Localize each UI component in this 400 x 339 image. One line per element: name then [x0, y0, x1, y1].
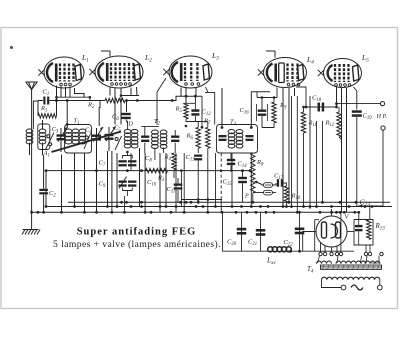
wire R8 bottom — [262, 184, 264, 187]
coil T4 secondary — [322, 277, 380, 280]
wire T2 cap lead — [144, 143, 146, 153]
wire antenna down — [31, 90, 33, 213]
capacitor C2 — [39, 189, 48, 191]
coil T2 s1 — [152, 130, 159, 134]
wire R1 ends — [37, 112, 39, 116]
wire y199 segment — [181, 199, 222, 201]
wire v184 — [183, 153, 185, 212]
gang line — [52, 132, 122, 153]
capacitor T3 right — [246, 135, 254, 137]
wire v180 — [180, 171, 182, 207]
terminal HP+ — [380, 102, 384, 106]
terminal p5 — [339, 252, 342, 255]
wire v107 — [107, 151, 109, 207]
terminal p3 — [330, 252, 333, 255]
wire A1 sec leads — [42, 120, 44, 129]
variable capacitor C4 — [92, 135, 101, 137]
wire box T3 left — [205, 93, 215, 125]
wire y97 link — [57, 96, 90, 98]
wire cap leads — [261, 98, 263, 110]
wire v124 cap cluster — [124, 196, 126, 212]
terminal sec right — [377, 285, 382, 290]
capacitor T3 left — [219, 135, 227, 137]
wire v322 — [322, 121, 324, 202]
wire V anode top — [331, 209, 333, 216]
wire HP top — [337, 103, 382, 105]
wire v215 — [215, 153, 217, 207]
wire box V3 — [201, 96, 203, 127]
terminal p6 — [364, 252, 367, 255]
wire v176 — [175, 153, 177, 212]
wire v61 — [61, 155, 63, 213]
capacitor C7b — [128, 160, 136, 162]
variable capacitor C3 — [57, 134, 66, 136]
resistor R13 — [367, 220, 371, 239]
coil T3 s — [236, 130, 243, 134]
terminal p8 — [380, 252, 383, 255]
wire grid drop to T1 — [66, 101, 68, 128]
wire V5 pins down — [336, 87, 338, 107]
tube V5 — [324, 59, 362, 88]
rail y206 — [46, 206, 392, 208]
wire C22 lead — [299, 212, 301, 251]
wire C20 lead — [241, 212, 243, 251]
wire R10 bottom — [286, 203, 288, 207]
wire v251 — [250, 153, 252, 207]
coil T4 primary c — [365, 261, 380, 264]
AC symbol — [351, 285, 363, 290]
capacitor T2 tuning left — [141, 136, 149, 138]
svg-text:P: P — [244, 194, 249, 200]
coil A1 box — [38, 124, 50, 150]
transformer T1 box — [65, 125, 92, 154]
filament arc — [331, 224, 338, 238]
wire p6 stub — [365, 245, 367, 252]
terminal p4 — [335, 252, 338, 255]
wire R2 corner down — [98, 101, 101, 127]
wire V1 pins down — [56, 86, 58, 101]
wire V1 plate — [75, 88, 85, 97]
wire box C20 — [223, 214, 355, 251]
wire v84 — [84, 153, 86, 212]
coil T1 primary — [65, 129, 72, 133]
svg-text:H P.: H P. — [376, 113, 388, 120]
wire v297 — [296, 96, 298, 212]
resistor R5 — [184, 103, 188, 119]
wire R9 leads — [273, 98, 275, 103]
capacitor C13 — [194, 155, 202, 157]
wire R2 right node — [125, 101, 127, 113]
terminal sec left — [341, 285, 346, 290]
terminal HP- — [381, 126, 385, 130]
wire c18 line — [306, 106, 337, 108]
terminal p7 — [368, 252, 371, 255]
wire sec right — [379, 280, 381, 285]
coil T4 primary a — [317, 261, 332, 264]
switch on A1 — [47, 135, 50, 138]
wire mid rail y170.6 — [46, 170, 250, 172]
tube V3 — [169, 56, 212, 88]
resistor R7 body — [206, 127, 210, 148]
svg-text:D: D — [128, 122, 134, 128]
wire V4 pins down — [282, 88, 284, 207]
rail y202 — [68, 201, 390, 203]
wire R11 leads — [303, 107, 305, 112]
coil T3 p — [228, 130, 235, 134]
resistor R11 — [301, 112, 305, 133]
wire plate jumper — [121, 95, 139, 97]
wire sec left — [322, 280, 342, 288]
wire C6 down — [126, 120, 128, 124]
wire v316 — [316, 121, 318, 207]
wire v141 — [139, 148, 141, 207]
wire V filament leads — [320, 243, 322, 253]
capacitor C17 — [277, 179, 279, 187]
capacitor C22 — [295, 228, 305, 231]
wire prim leads — [318, 256, 320, 263]
coil T1 mid — [72, 129, 79, 133]
wire V left — [303, 232, 316, 252]
switch on T1 — [85, 136, 88, 139]
wire V3 plate down — [206, 87, 209, 93]
terminal p2 — [323, 252, 326, 255]
wire T2 right cap leads — [174, 130, 176, 136]
bias cell 2 — [264, 190, 273, 195]
wire A1 primary leads — [33, 101, 38, 129]
wire C21 lead — [260, 212, 262, 251]
bias cell 1 — [264, 183, 273, 188]
capacitor C14 — [227, 159, 235, 161]
resistor R8 — [251, 153, 255, 193]
anode plate 1 — [322, 222, 327, 238]
wire t3 plate drop — [221, 88, 223, 128]
grid cap stub V2 — [109, 51, 111, 57]
coil T2 s2 — [160, 130, 167, 134]
capacitor C6 — [121, 113, 131, 115]
wire C11 leads — [177, 178, 179, 184]
wire v160 — [159, 153, 161, 212]
capacitor T2 tuning right — [171, 136, 179, 138]
wire R6R7 joins — [197, 148, 199, 153]
capacitor C1 — [43, 97, 45, 105]
grid cap stub V4 — [274, 51, 276, 58]
capacitor C19 — [352, 110, 362, 113]
wire V2 pins down — [109, 87, 111, 96]
choke Lxc — [268, 247, 273, 252]
capacitor C21 — [256, 229, 265, 232]
svg-text:Super antifading FEG: Super antifading FEG — [77, 226, 197, 237]
resistor R2 — [105, 98, 125, 102]
wire R13 box — [354, 220, 373, 246]
svg-text:5 lampes + valve (lampes améri: 5 lampes + valve (lampes américaines). — [53, 239, 221, 250]
rail y211 — [32, 211, 360, 213]
wire V4 input top — [257, 97, 277, 99]
wire v46 — [45, 171, 47, 207]
capacitor C15 — [238, 177, 247, 179]
ground — [31, 212, 33, 229]
wire C17 right — [283, 183, 286, 186]
coil A1 secondary — [39, 129, 46, 133]
wire grid bus — [125, 96, 202, 100]
capacitor C7a — [118, 160, 126, 162]
terminal p1 — [319, 252, 322, 255]
wire rail stub right — [340, 212, 342, 252]
coil T4 primary b — [336, 261, 366, 264]
wire v74 — [74, 153, 76, 207]
resistor R4 — [172, 153, 176, 170]
wire t3 right top — [250, 92, 252, 128]
wire v310 — [309, 96, 311, 209]
wire v291 — [291, 96, 293, 207]
wire V3 left diag — [157, 78, 166, 125]
capacitor C9a — [118, 181, 126, 183]
resistor R6 — [196, 127, 200, 148]
wire C7 bridge — [123, 156, 133, 159]
coil T1 secondary — [79, 129, 86, 133]
wire C9 bridge — [123, 188, 133, 191]
wire v96 — [96, 152, 98, 212]
wire v166 — [165, 153, 167, 207]
tube V2 — [95, 56, 143, 88]
coil A1 primary — [26, 129, 33, 133]
wire V3 pins — [180, 88, 182, 97]
wire node to grid line — [55, 100, 105, 102]
capacitor C12 — [191, 109, 199, 112]
capacitor C par grid — [258, 110, 267, 112]
wire v131 — [130, 153, 132, 171]
resistor R9 — [272, 102, 276, 123]
wire T2 top link — [141, 125, 159, 127]
wire v145 — [144, 153, 146, 212]
wire V right — [347, 231, 354, 233]
wire v222 dashed — [220, 153, 222, 200]
coil T2 p1 — [124, 129, 131, 133]
rectifier tube V — [316, 216, 347, 247]
printers mark dot — [10, 46, 13, 49]
wire C19 down — [356, 117, 358, 207]
wire V5 plate — [354, 87, 357, 110]
transformer T3 box — [217, 125, 258, 154]
wire C12 leads — [194, 96, 196, 109]
coil T2 p2 — [131, 129, 138, 133]
wire bias leads — [254, 192, 264, 194]
wire C1 left drop — [37, 101, 39, 113]
core T4 — [321, 265, 382, 269]
wire v117 — [116, 153, 118, 207]
tube V4 — [264, 58, 307, 88]
resistor R1 — [38, 114, 56, 118]
capacitor C11 — [174, 184, 183, 186]
capacitor C18 — [318, 103, 321, 112]
tube V1 — [44, 57, 84, 88]
capacitor C20 — [237, 228, 247, 231]
wire V2 plate — [136, 87, 139, 96]
resistor R3 — [146, 168, 168, 172]
switch on C5 — [115, 138, 118, 141]
wire C13 down — [197, 161, 199, 203]
antenna A — [26, 82, 38, 90]
wire v232 — [231, 153, 233, 207]
resistor R12 — [337, 112, 341, 137]
anode plate 2 — [336, 222, 341, 238]
wire V4 plate — [296, 87, 306, 107]
variable capacitor C5 — [105, 134, 114, 136]
wire R4 leads — [173, 170, 175, 178]
wire R12 leads — [338, 107, 340, 112]
wire HP return — [358, 130, 383, 206]
wire v111 — [111, 151, 113, 212]
capacitor C9b — [128, 181, 136, 183]
wire cap bracket — [256, 104, 258, 121]
wire R8 wiper — [255, 182, 262, 185]
resistor R10 — [284, 186, 288, 203]
capacitor C24 in box — [355, 225, 363, 227]
